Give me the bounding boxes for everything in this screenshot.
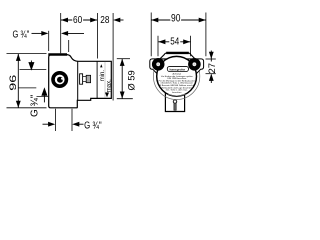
svg-text:96: 96 xyxy=(8,74,18,90)
dim diam 59 bottom arrow xyxy=(120,92,125,99)
dim 60 right arrow xyxy=(90,18,97,23)
side port inner white detail xyxy=(62,77,64,81)
side port dim bottom line xyxy=(18,87,36,89)
side view internal boundary line xyxy=(77,61,79,100)
second row arrow pointing left at x60.7 xyxy=(61,31,68,36)
right boss outline xyxy=(190,59,204,75)
big circle xyxy=(157,56,197,96)
side view min zone line xyxy=(96,61,98,98)
dim 60 left arrow xyxy=(61,18,68,23)
svg-text:Ø 59: Ø 59 xyxy=(126,70,136,90)
dim 60 line xyxy=(61,19,97,21)
side port circle ring xyxy=(53,73,66,86)
left boss inner flank line xyxy=(162,66,164,73)
spindle rod lines xyxy=(83,76,87,78)
dim diam 59 top extension xyxy=(117,58,130,60)
spindle end block xyxy=(86,75,90,82)
bottom port left outside arrow xyxy=(48,122,55,127)
svg-text:beachten: beachten xyxy=(172,91,182,94)
extension line at body front face xyxy=(48,31,50,51)
side port inner disc xyxy=(57,77,63,83)
svg-text:max.: max. xyxy=(106,79,112,92)
leader arrow up near foot xyxy=(42,89,47,103)
bottom box glyph circle xyxy=(173,100,176,103)
dim 54 left extension xyxy=(157,36,159,57)
svg-text:90: 90 xyxy=(171,12,180,24)
dim 27 top extension xyxy=(206,58,216,60)
svg-text:G ¾": G ¾" xyxy=(84,120,102,131)
side port dim top line xyxy=(20,69,47,71)
svg-text:hansgrohe: hansgrohe xyxy=(170,67,186,71)
side port dim upper outside arrow xyxy=(29,61,34,70)
left port ring xyxy=(154,60,162,68)
left boss outline xyxy=(150,59,164,75)
dim 27 line xyxy=(210,51,212,62)
dim diam 59 top arrow xyxy=(120,59,125,66)
dim 96 top arrow xyxy=(16,54,21,61)
extension line 60 left xyxy=(60,13,62,53)
extension line 28 right xyxy=(112,13,114,101)
dim diam 59 bottom extension xyxy=(117,98,133,100)
sticker text lines xyxy=(159,73,196,94)
side view thick top face xyxy=(48,53,67,55)
sticker bottom arc xyxy=(168,94,186,95)
bottom box xyxy=(165,93,184,112)
front view cap outline xyxy=(160,53,195,59)
dim 54 line xyxy=(158,41,190,43)
svg-text:G ¾": G ¾" xyxy=(13,30,30,41)
svg-text:28: 28 xyxy=(100,15,109,26)
dim diam 59 line xyxy=(121,59,123,99)
max arrow down xyxy=(106,92,109,96)
dim 96 bottom arrow xyxy=(16,101,21,108)
right port ring xyxy=(190,60,198,68)
extension line 60 right xyxy=(96,13,98,59)
dim 28 outside arrow xyxy=(113,18,120,23)
dim 54 right arrow xyxy=(183,39,190,44)
svg-text:60: 60 xyxy=(73,15,82,26)
spindle detail xyxy=(80,74,83,84)
dim 96 line xyxy=(17,54,19,108)
bottom port extension line right xyxy=(71,109,73,131)
dim 54 right extension xyxy=(190,36,192,57)
dim 90 right extension xyxy=(205,13,207,57)
bottom box glyph stem xyxy=(174,103,176,110)
dim 90 line xyxy=(151,19,205,21)
front cap thick top xyxy=(166,52,189,54)
extension line at hump corner xyxy=(68,40,70,52)
dim 27 bottom extension xyxy=(206,73,216,75)
dim 27 bottom outside arrow xyxy=(209,74,214,81)
dim 54 left arrow xyxy=(158,39,165,44)
dim 90 right arrow xyxy=(199,18,206,23)
bottom port extension line left xyxy=(54,109,56,131)
dim 96 top extension line xyxy=(7,53,47,55)
side view body outline xyxy=(49,55,112,108)
min zone separator line xyxy=(104,62,106,98)
dim 90 left extension xyxy=(150,13,152,57)
svg-text:54: 54 xyxy=(170,37,179,48)
hansgrohe label box xyxy=(167,66,188,71)
svg-text:G ¾": G ¾" xyxy=(29,94,40,117)
flange circle (faint, larger) xyxy=(153,53,199,99)
bottom port right outside arrow xyxy=(72,122,79,127)
dim 27 top outside arrow xyxy=(209,52,214,59)
svg-text:27: 27 xyxy=(207,63,218,74)
hidden edge line at foot xyxy=(37,95,49,97)
min arrow up xyxy=(100,64,102,67)
G 3/4 top arrow xyxy=(41,31,48,36)
dim 96 bottom extension line xyxy=(7,107,47,109)
dim 90 left arrow xyxy=(151,18,158,23)
right boss inner flank line xyxy=(190,66,192,73)
